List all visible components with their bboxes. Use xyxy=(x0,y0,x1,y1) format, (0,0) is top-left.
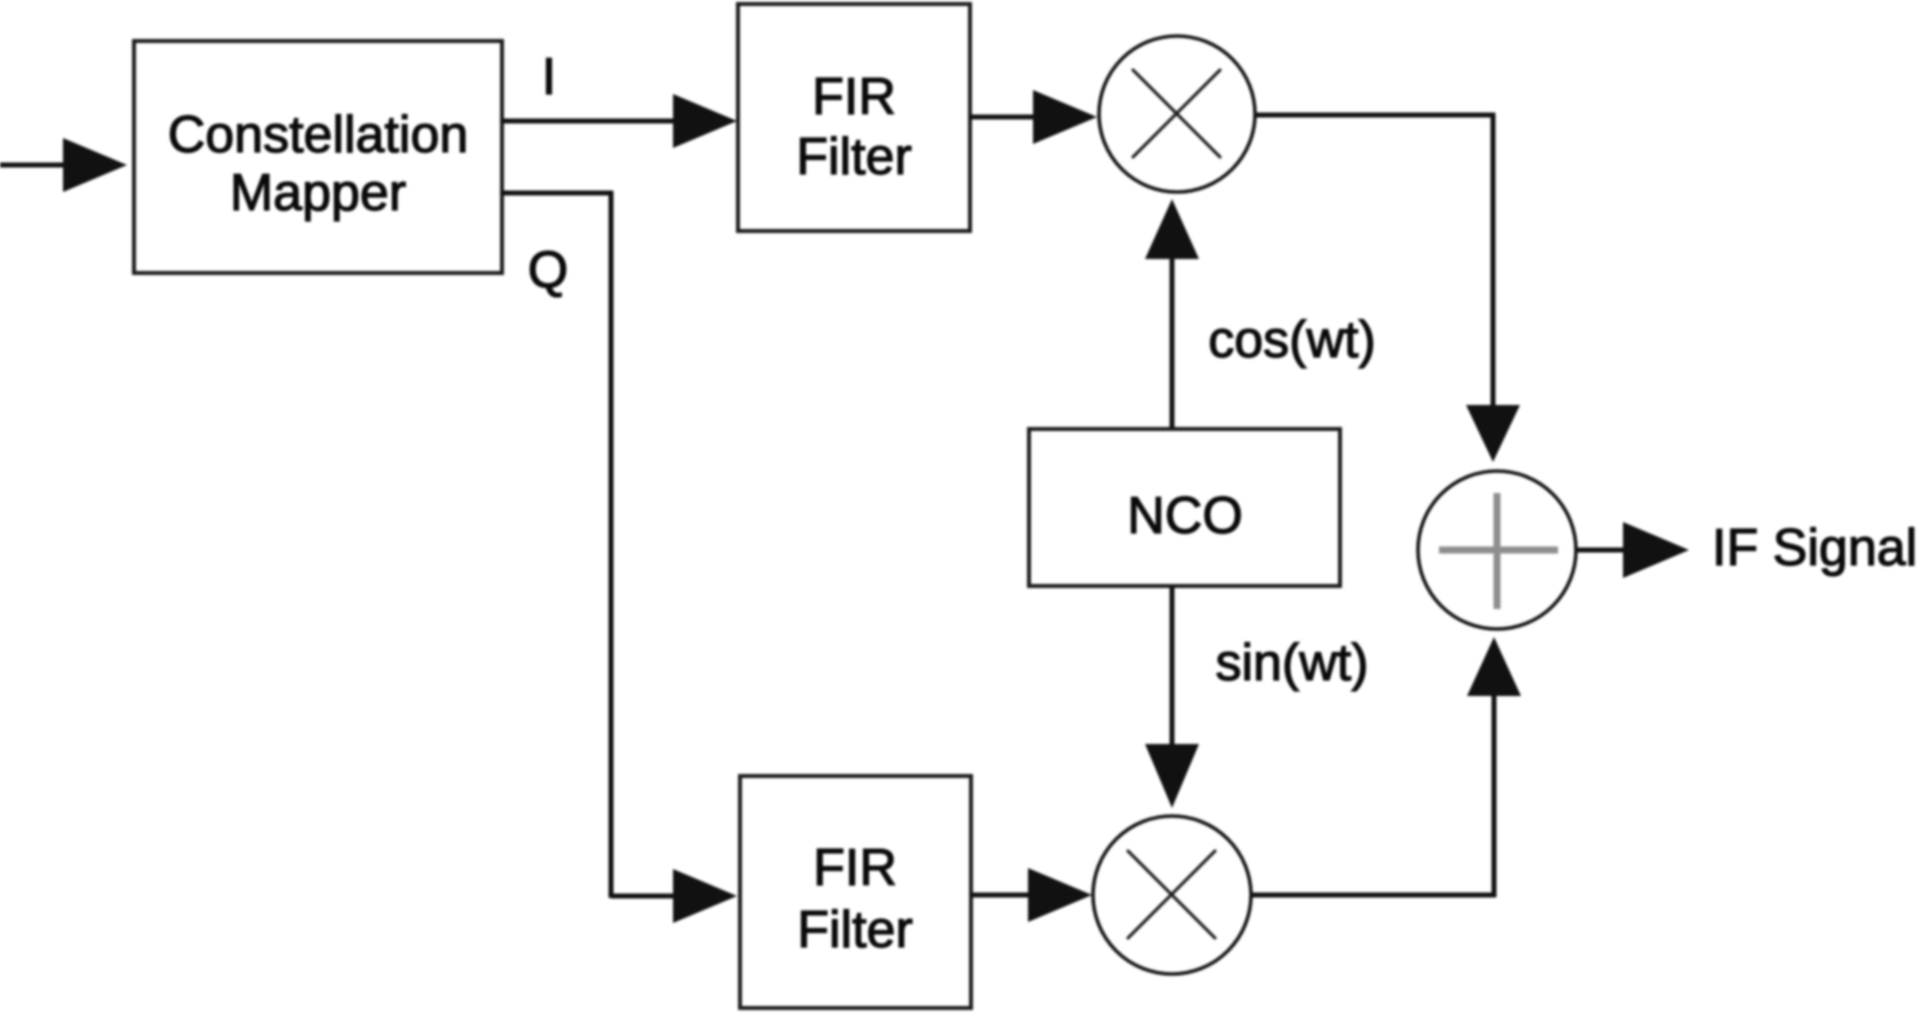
svg-text:FIR: FIR xyxy=(812,68,896,126)
multiplier (top mixer) circle xyxy=(1099,36,1255,192)
arrowhead: output xyxy=(1623,522,1689,578)
wire: riser up to summer xyxy=(1492,694,1497,897)
svg-text:Mapper: Mapper xyxy=(230,164,406,222)
wire: top FIR to multiplier xyxy=(970,115,1041,120)
wire: cos line from NCO up to multiplier xyxy=(1170,256,1175,429)
svg-text:IF Signal: IF Signal xyxy=(1712,519,1917,577)
arrowhead: into bottom multiplier xyxy=(1028,868,1092,922)
wire: I from mapper to top FIR xyxy=(502,119,680,124)
box: FIR Filter (bottom) xyxy=(740,776,971,1008)
wire: bottom FIR to multiplier xyxy=(971,893,1036,898)
arrowhead: up into summer bottom xyxy=(1467,637,1521,696)
multiplier (bottom mixer) circle xyxy=(1093,816,1251,974)
arrowhead: down into summer top xyxy=(1466,405,1520,462)
multiplier (top mixer) X mark xyxy=(1133,70,1220,157)
arrowhead: input into Constellation Mapper xyxy=(63,138,127,192)
summer (adder) circle xyxy=(1418,471,1576,629)
wire: sin line from NCO down to bottom multiplier xyxy=(1170,586,1175,750)
summer plus sign xyxy=(1439,547,1558,554)
svg-text:cos(wt): cos(wt) xyxy=(1208,311,1376,369)
svg-text:Filter: Filter xyxy=(797,901,913,959)
wire: riser down to summer xyxy=(1491,113,1496,408)
svg-text:sin(wt): sin(wt) xyxy=(1215,634,1368,692)
box: FIR Filter (top) xyxy=(738,4,970,231)
wire: bottom multiplier to right corner xyxy=(1251,893,1496,898)
wire: input line into mapper xyxy=(0,163,68,168)
arrowhead: down into bottom multiplier xyxy=(1145,744,1199,808)
svg-text:Constellation: Constellation xyxy=(168,106,469,164)
wire: top multiplier to right corner xyxy=(1255,113,1495,118)
box: NCO xyxy=(1029,429,1340,586)
wire: Q vertical down xyxy=(609,191,614,898)
svg-text:FIR: FIR xyxy=(813,839,897,897)
wire: Q horizontal into bottom FIR xyxy=(611,894,680,899)
svg-text:Filter: Filter xyxy=(796,128,912,186)
wire: Q horizontal from mapper xyxy=(502,191,613,196)
svg-text:NCO: NCO xyxy=(1127,487,1243,545)
svg-text:Q: Q xyxy=(528,241,568,299)
arrowhead: up into top multiplier xyxy=(1145,199,1199,259)
arrowhead: I into top FIR xyxy=(673,94,737,148)
arrowhead: into top multiplier xyxy=(1033,90,1097,144)
svg-text:I: I xyxy=(542,48,556,106)
multiplier (bottom mixer) X mark xyxy=(1128,851,1215,938)
wire: summer output xyxy=(1577,548,1632,553)
box: Constellation Mapper xyxy=(134,41,502,273)
arrowhead: Q into bottom FIR xyxy=(673,869,737,923)
